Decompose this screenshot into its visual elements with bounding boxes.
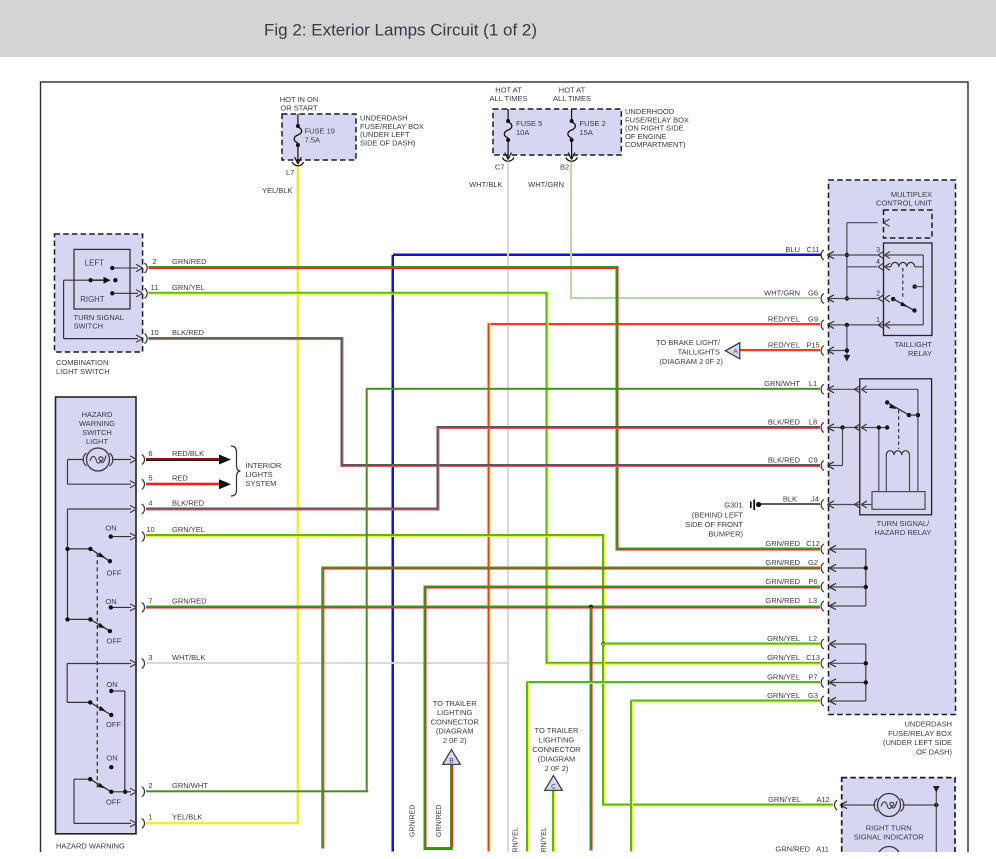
relay L8 arrows (855, 424, 861, 431)
svg-text:TO TRAILER: TO TRAILER (535, 726, 579, 735)
svg-text:4: 4 (876, 259, 880, 266)
wire RED/BLK hazard pin 6 (146, 458, 220, 461)
junction bus/C11 (845, 253, 849, 257)
connector at multiplex edge G3 (821, 696, 866, 706)
svg-text:C9: C9 (808, 455, 818, 464)
svg-text:1: 1 (148, 813, 152, 822)
svg-text:LIGHTING: LIGHTING (539, 736, 575, 745)
svg-text:LIGHT SWITCH: LIGHT SWITCH (56, 367, 110, 376)
svg-text:ON: ON (106, 753, 117, 762)
wire GRN/YEL turn-signal pin 11 horizontal (149, 292, 549, 295)
svg-text:GRN/RED: GRN/RED (172, 597, 207, 606)
svg-text:TAILLIGHTS: TAILLIGHTS (678, 348, 720, 357)
svg-text:GRN/YEL: GRN/YEL (767, 691, 800, 700)
taillight relay coil (891, 262, 915, 266)
svg-text:GRN/RED: GRN/RED (765, 558, 800, 567)
wire GRN/YEL horizontal to L2 (602, 643, 820, 646)
connector arcs at hazard switch (142, 455, 145, 465)
svg-text:TO BRAKE LIGHT/: TO BRAKE LIGHT/ (656, 338, 721, 347)
wire WHT/GRN vertical from B2 (570, 162, 572, 300)
svg-text:WHT/BLK: WHT/BLK (172, 653, 205, 662)
hazard pin 1 inner wire (73, 779, 75, 823)
connector at multiplex edge P6 (821, 582, 866, 592)
svg-text:L3: L3 (809, 596, 817, 605)
svg-text:RED/BLK: RED/BLK (172, 449, 204, 458)
svg-text:2: 2 (152, 257, 156, 266)
wire GRN/RED horizontal G2 (321, 567, 820, 570)
connector at multiplex edge C13 (821, 658, 866, 668)
svg-text:LIGHT: LIGHT (86, 437, 109, 446)
svg-text:LEFT: LEFT (85, 259, 104, 268)
wire BLK/RED horizontal to C9 (341, 464, 821, 467)
svg-text:FUSE 2: FUSE 2 (580, 119, 606, 128)
svg-text:L1: L1 (809, 379, 817, 388)
svg-text:OF DASH): OF DASH) (916, 747, 952, 756)
junction pin7/A11 branch (589, 605, 593, 609)
svg-text:J4: J4 (811, 494, 819, 503)
wire BLU vertical (392, 255, 395, 852)
wire BLK/RED horizontal to L8 (437, 426, 821, 429)
wire GRN/RED hazard pin 7 to L3 horizontal (146, 606, 820, 609)
section C ON contact (109, 689, 113, 693)
connector at multiplex edge J4 (821, 500, 859, 510)
svg-text:BLK/RED: BLK/RED (172, 499, 205, 508)
svg-text:OFF: OFF (106, 720, 121, 729)
svg-text:GRN/RED: GRN/RED (410, 805, 417, 837)
svg-text:SIDE OF DASH): SIDE OF DASH) (360, 138, 416, 147)
svg-text:GRN/YEL: GRN/YEL (767, 634, 800, 643)
svg-text:(DIAGRAM 2 0F 2): (DIAGRAM 2 0F 2) (660, 357, 724, 366)
svg-text:TO TRAILER: TO TRAILER (433, 699, 477, 708)
svg-text:10: 10 (150, 328, 158, 337)
svg-text:GRN/YEL: GRN/YEL (172, 283, 205, 292)
svg-text:A12: A12 (816, 795, 829, 804)
svg-text:GRN/RED: GRN/RED (436, 805, 443, 837)
wire GRN/RED P6 vertical (424, 587, 427, 850)
svg-text:1: 1 (876, 317, 880, 324)
off-page connector A to brake light/taillights (725, 343, 740, 359)
turn signal switch common wire to pin 10 (64, 279, 89, 281)
off-page connector C triangle (545, 776, 563, 791)
P15 junction and continuation arrow (845, 323, 849, 327)
hazard pin 3 inner wire (67, 663, 131, 665)
fuse FUSE 5 10A element (502, 109, 513, 161)
lamp return wire to pin 5 (68, 483, 132, 485)
wire WHT/GRN horizontal to G6 (571, 297, 820, 299)
svg-text:SIGNAL INDICATOR: SIGNAL INDICATOR (854, 833, 924, 842)
svg-text:GRN/RED: GRN/RED (765, 577, 800, 586)
svg-text:ALL TIMES: ALL TIMES (490, 94, 528, 103)
junction at indicator supply (934, 803, 938, 807)
svg-text:HAZARD: HAZARD (82, 410, 113, 419)
relay pin 3 arrows (878, 251, 884, 258)
svg-text:BLK/RED: BLK/RED (172, 328, 205, 337)
wire GRN/RED trailer-B bottom jog (424, 847, 453, 850)
indicator supply vertical with arrow (935, 791, 937, 852)
svg-text:WHT/GRN: WHT/GRN (528, 180, 564, 189)
svg-text:RELAY: RELAY (908, 349, 932, 358)
wire GRN/YEL pin11-to-C13 vertical (546, 292, 549, 665)
fuse FUSE 2 15A element (566, 109, 577, 161)
wire GRN/YEL P7 vertical (526, 683, 529, 852)
svg-text:7: 7 (148, 597, 152, 606)
svg-text:CONNECTOR: CONNECTOR (532, 745, 581, 754)
svg-text:C12: C12 (806, 539, 820, 548)
taillight relay box (884, 243, 933, 336)
hazard switch gang dashed link (96, 553, 98, 788)
svg-text:ALL TIMES: ALL TIMES (553, 94, 591, 103)
right turn signal indicator box (842, 778, 955, 854)
svg-text:OFF: OFF (107, 569, 122, 578)
wire GRN/YEL horizontal P7 (526, 681, 820, 684)
svg-text:ON: ON (106, 680, 117, 689)
wire BLK/RED pin10-to-C9 vertical (341, 337, 344, 467)
wire WHT/BLK horizontal to hazard pin 3 (146, 662, 510, 664)
svg-text:OFF: OFF (107, 636, 122, 645)
turn relay L8 contact dots (877, 425, 881, 429)
svg-text:GRN/WHT: GRN/WHT (172, 781, 208, 790)
svg-text:GRN/RED: GRN/RED (172, 257, 207, 266)
svg-text:FUSE/RELAY BOX: FUSE/RELAY BOX (888, 729, 952, 738)
svg-text:C: C (551, 784, 556, 791)
svg-text:YEL/BLK: YEL/BLK (172, 813, 202, 822)
svg-text:GRN/YEL: GRN/YEL (767, 653, 800, 662)
ground G301 symbol (751, 500, 761, 511)
svg-text:UNDERDASH: UNDERDASH (904, 720, 952, 729)
wire RED/YEL horizontal to P15 (740, 349, 820, 352)
wire BLK/RED turn-signal pin 10 horizontal (149, 337, 344, 340)
connector at multiplex edge L8 (821, 423, 859, 433)
svg-text:L7: L7 (286, 168, 294, 177)
wire GRN/RED trailer-B stem (450, 765, 453, 848)
underdash fuse/relay box (FUSE 19) (282, 114, 356, 160)
indicator lamp wire right (903, 804, 937, 806)
svg-text:RED/YEL: RED/YEL (768, 315, 800, 324)
taillight relay inner wiring (885, 255, 923, 325)
hazard warning switch box (56, 397, 137, 834)
junction hazard-pin10/L2 (601, 642, 605, 646)
svg-text:HAZARD RELAY: HAZARD RELAY (874, 528, 931, 537)
svg-text:BLK/RED: BLK/RED (768, 455, 801, 464)
svg-text:TURN SIGNAL/: TURN SIGNAL/ (877, 519, 930, 528)
turn signal switch RIGHT contact (110, 291, 114, 295)
svg-text:INTERIOR: INTERIOR (246, 461, 282, 470)
svg-text:RED/YEL: RED/YEL (768, 340, 800, 349)
connector at multiplex edge P15 (821, 346, 847, 356)
svg-text:B2: B2 (560, 163, 569, 172)
turn signal switch inner box (74, 249, 130, 309)
wire RED/YEL vertical (488, 323, 491, 852)
svg-text:GRN/WHT: GRN/WHT (764, 379, 800, 388)
svg-text:11: 11 (151, 283, 159, 292)
hazard switch section B (pin7 GRN/RED) (68, 619, 110, 631)
multiplex control unit sub-box (884, 210, 933, 238)
wire BLU horizontal to C11 (393, 254, 821, 257)
connector at multiplex edge C11 (821, 250, 877, 260)
svg-text:G9: G9 (808, 315, 818, 324)
relay pin 4 arrows (878, 263, 884, 270)
wire GRN/YEL G3 vertical (630, 701, 633, 852)
section B ON contact to pin 7 (109, 605, 113, 609)
wire YEL/BLK horizontal to hazard pin 1 (146, 822, 299, 825)
svg-text:C13: C13 (806, 653, 820, 662)
svg-text:GRN/YEL: GRN/YEL (767, 672, 800, 681)
svg-text:FUSE 19: FUSE 19 (305, 127, 335, 136)
svg-text:WHT/GRN: WHT/GRN (764, 288, 800, 297)
relay pin 4 shaft from bus (847, 266, 877, 268)
hazard switch section C (67, 702, 111, 715)
svg-text:BLK/RED: BLK/RED (768, 417, 801, 426)
svg-text:COMBINATION: COMBINATION (56, 358, 108, 367)
svg-text:Fig 2: Exterior Lamps Circuit: Fig 2: Exterior Lamps Circuit (1 of 2) (264, 21, 537, 40)
section A ON contact to pin 10 (109, 534, 113, 538)
lamp wire to pin 6 (68, 459, 85, 461)
svg-text:TAILLIGHT: TAILLIGHT (895, 340, 933, 349)
multiplex control unit / underdash fuse box (829, 180, 956, 715)
svg-text:L2: L2 (809, 634, 817, 643)
svg-text:3: 3 (148, 653, 152, 662)
wire GRN/WHT horizontal to L1 (366, 388, 820, 390)
svg-text:FUSE 5: FUSE 5 (516, 119, 542, 128)
svg-text:RED: RED (172, 474, 188, 483)
connector at indicator edge A12 (835, 800, 838, 810)
wire GRN/RED vertical to A11 (590, 607, 593, 851)
connector at multiplex edge G9 (821, 320, 883, 330)
svg-text:BLU: BLU (785, 245, 800, 254)
svg-text:(DIAGRAM: (DIAGRAM (538, 755, 576, 764)
svg-text:6: 6 (148, 449, 152, 458)
svg-text:10A: 10A (516, 128, 529, 137)
L2-G3 bus (865, 644, 867, 701)
svg-text:BUMPER): BUMPER) (708, 530, 743, 539)
svg-text:RIGHT TURN: RIGHT TURN (866, 824, 912, 833)
svg-text:SWITCH: SWITCH (74, 322, 104, 331)
connector at multiplex edge L1 (821, 384, 859, 394)
svg-text:WARNING: WARNING (79, 419, 115, 428)
svg-text:P15: P15 (806, 340, 819, 349)
svg-text:LIGHTS: LIGHTS (246, 470, 273, 479)
brace interior lights system (231, 446, 241, 496)
taillight relay switch (891, 297, 895, 301)
connector at multiplex edge G6 (821, 294, 877, 304)
svg-text:ON: ON (105, 523, 116, 532)
turn relay coil (886, 451, 909, 455)
svg-text:L8: L8 (809, 417, 817, 426)
svg-text:2 0F 2): 2 0F 2) (443, 736, 467, 745)
svg-text:G6: G6 (808, 288, 818, 297)
junction bus/G6 (845, 296, 849, 300)
wire RED/YEL horizontal to G9 (489, 323, 820, 326)
indicator lamp wire left (850, 804, 876, 806)
svg-text:3: 3 (876, 247, 880, 254)
turn relay coil dashed link (898, 410, 900, 449)
turn relay inner wiring (861, 389, 918, 504)
ON-contact bus vertical (124, 691, 126, 792)
svg-text:C7: C7 (495, 163, 505, 172)
svg-text:2: 2 (876, 291, 880, 298)
svg-text:(UNDER LEFT SIDE: (UNDER LEFT SIDE (883, 738, 952, 747)
svg-text:GRN/YEL: GRN/YEL (172, 525, 205, 534)
header bar (0, 0, 996, 57)
figure bottom clip (0, 852, 996, 859)
wire GRN/YEL horizontal G3 (630, 700, 820, 703)
svg-text:RIGHT: RIGHT (80, 295, 104, 304)
svg-text:P7: P7 (808, 672, 817, 681)
wire BLK/RED hazard pin 4 horizontal (146, 508, 439, 511)
svg-text:COMPARTMENT): COMPARTMENT) (625, 140, 686, 149)
svg-text:G3: G3 (808, 691, 818, 700)
wire WHT/BLK vertical from C7 (507, 162, 509, 852)
right turn signal indicator lamp (874, 794, 904, 817)
taillight relay coil-to-switch dashed link (902, 268, 904, 297)
svg-text:OFF: OFF (106, 798, 121, 807)
wire GRN/RED turn-signal pin 2 horizontal (149, 266, 619, 269)
turn relay switch (885, 400, 889, 404)
wire GRN/RED pin2-to-C12 vertical (616, 266, 619, 550)
off-page connector B triangle (443, 750, 461, 765)
sub-box wire to C11/G6 bus (847, 222, 878, 224)
sub-box connector (884, 219, 890, 226)
combination light switch box (turn signal switch) (55, 234, 143, 352)
svg-text:7.5A: 7.5A (305, 136, 320, 145)
svg-text:10: 10 (146, 525, 154, 534)
wire GRN/YEL trailer-C stem (552, 790, 555, 852)
svg-text:(DIAGRAM: (DIAGRAM (436, 727, 474, 736)
hazard switch section A (pin10 GRN/YEL) (68, 549, 110, 620)
svg-text:GRN/RED: GRN/RED (765, 539, 800, 548)
svg-text:5: 5 (148, 474, 152, 483)
svg-text:YEL/BLK: YEL/BLK (262, 186, 292, 195)
svg-text:GRN/RED: GRN/RED (765, 596, 800, 605)
relay J4 arrows (855, 501, 861, 508)
C12-L3 bus (865, 549, 867, 606)
flasher unit box (872, 492, 925, 510)
hazard warning switch light lamp (83, 448, 113, 471)
svg-text:ON: ON (105, 597, 116, 606)
wire GRN/WHT hazard pin 2 horizontal (146, 790, 368, 792)
svg-text:G2: G2 (808, 558, 818, 567)
svg-text:2 0F 2): 2 0F 2) (545, 764, 569, 773)
svg-text:CONNECTOR: CONNECTOR (431, 717, 480, 726)
wire GRN/RED G2 vertical (321, 568, 324, 849)
wire GRN/YEL hazard pin 10 horizontal (146, 534, 605, 537)
wire YEL/BLK vertical from L7 (297, 167, 300, 824)
wire GRN/YEL pin10-to-A12 vertical (602, 534, 605, 806)
svg-text:C11: C11 (806, 245, 819, 254)
underhood fuse/relay box (FUSE 5, FUSE 2) (493, 109, 621, 155)
hazard switch section D (pin2 GRN/WHT) (74, 779, 131, 792)
svg-text:WHT/BLK: WHT/BLK (469, 180, 502, 189)
svg-text:G301: G301 (724, 501, 742, 510)
svg-text:P6: P6 (808, 577, 817, 586)
svg-text:OR START: OR START (280, 104, 318, 113)
svg-text:SIDE OF FRONT: SIDE OF FRONT (685, 520, 743, 529)
section D ON contact (109, 765, 113, 769)
svg-text:4: 4 (148, 499, 152, 508)
connector arcs at turn signal switch (145, 263, 148, 273)
svg-text:HAZARD WARNING: HAZARD WARNING (56, 842, 125, 851)
hazard pin 4 inner wire (68, 508, 132, 510)
svg-text:GRN/YEL: GRN/YEL (768, 795, 801, 804)
wire RED hazard pin 5 (146, 483, 220, 486)
wire GRN/RED horizontal to C12 (616, 548, 821, 551)
relay L1 arrows (855, 386, 861, 393)
wire GRN/YEL horizontal to A12 (602, 804, 833, 807)
relay pin 1 arrows (878, 321, 884, 328)
turn signal switch LEFT contact (110, 266, 114, 270)
svg-text:B: B (449, 758, 453, 765)
svg-text:CONTROL UNIT: CONTROL UNIT (876, 199, 932, 208)
turn signal/hazard relay box (860, 379, 932, 515)
left turn signal indicator lamp (clipped) (878, 847, 901, 859)
connector at multiplex edge C12 (821, 544, 866, 554)
connector at multiplex edge P7 (821, 678, 866, 688)
svg-text:LIGHTING: LIGHTING (437, 708, 473, 717)
svg-text:SYSTEM: SYSTEM (246, 479, 277, 488)
arrow RED/BLK to interior lights (219, 455, 231, 465)
svg-text:A: A (733, 349, 738, 356)
wire BLK/RED pin4-to-L8 vertical (437, 426, 440, 510)
connector at multiplex edge G2 (821, 563, 866, 573)
connector at multiplex edge L2 (821, 639, 866, 649)
turn signal switch common contact arm (88, 278, 92, 282)
relay pin 2 arrows (878, 295, 884, 302)
L8/C9 tie wire (840, 425, 844, 429)
connector at multiplex edge L3 (821, 601, 866, 611)
wire GRN/YEL horizontal to C13 (546, 662, 821, 665)
wire GRN/RED horizontal P6 (424, 586, 821, 589)
connector at multiplex edge C9 (821, 461, 842, 471)
wire GRN/WHT vertical (366, 388, 368, 792)
svg-text:SWITCH: SWITCH (82, 428, 112, 437)
svg-text:BLK: BLK (783, 494, 797, 503)
fuse FUSE 19 7.5A element (292, 114, 303, 166)
wire BLK ground G301 to J4 (760, 503, 820, 505)
svg-text:2: 2 (148, 781, 152, 790)
svg-text:(BEHIND LEFT: (BEHIND LEFT (692, 511, 744, 520)
svg-text:15A: 15A (580, 128, 593, 137)
arrow RED to interior lights (219, 479, 231, 489)
